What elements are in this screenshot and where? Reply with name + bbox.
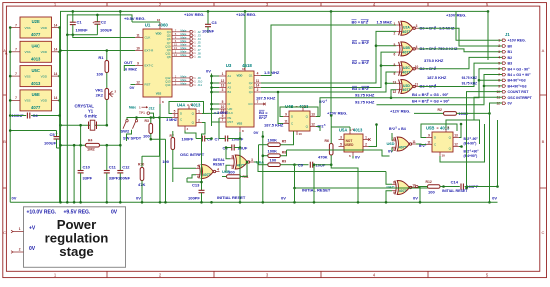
pin 4 output of U6B [216,171,220,173]
svg-text:11: 11 [415,83,419,87]
svg-text:OSC INTRRPT: OSC INTRRPT [508,96,533,100]
wire osc mid rail x67 [66,35,68,203]
pin 2 of U3 right [254,91,261,93]
pin 13 Q of U4B [310,116,316,118]
svg-text:14: 14 [54,96,58,100]
svg-text:U3: U3 [226,63,232,68]
svg-text:16: 16 [157,18,161,22]
pin 9 D of U4B [283,116,289,118]
svg-text:J9: J9 [198,55,202,59]
svg-text:11: 11 [412,140,416,144]
svg-text:6 mHz: 6 mHz [85,114,97,119]
svg-text:B4 = G3 + 90°: B4 = G3 + 90° [508,73,532,77]
pin 13 of U3 left [219,87,226,89]
junctions on bottom rail [59,201,62,204]
wire branch to R1 [106,51,108,61]
svg-text:5: 5 [498,61,500,65]
svg-text:Male: Male [181,50,187,54]
svg-text:Male: Male [181,35,187,39]
wire EXT-C out [124,66,135,72]
wire B0 output to J1 pin 2 [419,28,503,46]
wire B4 to U2D lower input [391,90,396,98]
pin 6 R of U5A [352,152,354,156]
unused gate unit U4C 4013 [20,41,52,62]
svg-text:VSS: VSS [25,50,31,54]
svg-text:4077: 4077 [403,70,411,74]
wire x165 vertical [165,139,167,202]
svg-text:100PF: 100PF [182,137,194,142]
pin 1 of U3 left [219,75,226,77]
svg-text:187.5 KHZ: 187.5 KHZ [256,96,276,101]
pin 8 VSS of U3 [239,127,241,132]
junction R1 column [119,10,122,13]
svg-text:VDD: VDD [41,50,48,54]
svg-text:VDD: VDD [237,74,243,78]
pin 7 of U4C [10,51,20,53]
svg-text:+: + [93,21,95,25]
wire C9 left drop [294,165,296,188]
svg-text:100: 100 [162,159,169,164]
wire +10V drop right [330,11,332,113]
svg-text:+V: +V [29,225,36,231]
svg-text:RST: RST [228,120,234,124]
svg-text:INITIAL RESET: INITIAL RESET [302,188,331,193]
svg-text:9: 9 [394,72,396,76]
wire count rst run [467,92,503,120]
svg-text:C2: C2 [101,19,107,24]
pin 12 of U6D [392,146,396,148]
svg-text:100NF: 100NF [118,176,131,181]
pin 4 S of U5A [349,131,351,135]
wire U6C output to 0V rail [416,188,420,203]
svg-text:3 MHZ: 3 MHZ [166,118,178,122]
svg-text:9: 9 [137,61,139,65]
pin 6 of U6B [196,174,200,176]
svg-text:U2E: U2E [32,19,40,24]
svg-text:R8: R8 [282,151,286,155]
svg-text:U6D: U6D [387,141,395,146]
svg-text:7: 7 [15,23,17,27]
junction crystal right [106,124,109,127]
svg-text:11: 11 [284,119,288,123]
xnor gate U2B 4077 [401,42,413,56]
svg-text:4077: 4077 [237,164,245,168]
xnor gate U6B 4077 [201,165,213,179]
pin 1 of U6A [230,158,234,160]
svg-text:U2A: U2A [403,26,410,30]
svg-text:3: 3 [251,158,253,162]
svg-text:R10: R10 [138,163,144,167]
svg-text:16: 16 [242,67,246,71]
wire U3 Q1 to U2A input [261,25,396,76]
wire B1 output to J1 pin 3 [419,49,503,52]
svg-text:A1: A1 [228,74,232,78]
pin 2 Qbar of U4A [196,122,202,124]
svg-text:0V: 0V [413,196,418,201]
svg-text:+12V REG.: +12V REG. [390,109,410,114]
svg-text:0V: 0V [281,196,286,201]
wire U5A S to +10V [349,127,351,131]
svg-text:10: 10 [409,185,413,189]
svg-text:15: 15 [174,43,177,47]
wire TP1 to node [150,113,154,117]
svg-text:Male: Male [181,28,187,32]
frame column ticks and numbers [107,3,428,278]
wire C14 right up [497,120,499,187]
svg-text:R5: R5 [282,140,286,144]
svg-text:3: 3 [416,24,418,28]
svg-text:Q2: Q2 [249,81,253,85]
wire osc intrrpt run [474,97,502,120]
junction +10V drop mid [244,10,247,13]
svg-text:4: 4 [416,45,418,49]
svg-text:(B4-90°): (B4-90°) [464,141,477,145]
wire SW2 poles up [126,118,128,120]
svg-text:0V: 0V [29,246,36,252]
wire +10V drop to U3 [244,11,246,68]
svg-text:Male: Male [181,74,187,78]
svg-text:R6: R6 [325,139,329,143]
xnor gate U2C 4077 [401,62,413,76]
svg-text:12: 12 [311,122,315,126]
svg-text:VSS: VSS [25,99,31,103]
pin 2 of U6A [230,164,234,166]
svg-text:5: 5 [340,142,342,146]
svg-text:12: 12 [393,90,397,94]
svg-text:100: 100 [143,133,150,138]
wire U6D output to U5B clock [416,143,426,146]
pin 3 of U3 left [219,91,226,93]
wire +9.5V second rail [67,15,132,35]
svg-text:B4-90°=G3: B4-90°=G3 [508,79,526,83]
svg-text:9: 9 [428,133,430,137]
pin 8 S of U5B [445,129,447,133]
svg-text:7: 7 [15,48,17,52]
svg-text:93.75 KHZ: 93.75 KHZ [462,76,477,80]
pin 11 CLK of U5B [426,144,432,146]
svg-text:14: 14 [54,48,58,52]
xnor gate U6C 4077 [397,181,409,195]
pin 10 EXT-R of U1 [135,50,143,52]
svg-text:1M2: 1M2 [87,147,96,152]
svg-text:Male: Male [181,78,187,82]
svg-text:B0: B0 [508,44,513,48]
wire U5B D loop [421,124,457,138]
svg-text:U2B: U2B [403,46,410,50]
svg-text:VSS: VSS [237,122,243,126]
svg-text:COUNT RST: COUNT RST [508,90,530,94]
pins of U2C [396,65,401,67]
svg-text:U4C: U4C [32,44,40,49]
wire C1 C2 bottom join [67,34,97,36]
svg-text:100K: 100K [268,138,278,143]
wire EXT-R from oscillator rail [61,50,136,52]
svg-text:U2C: U2C [403,66,410,70]
pin 8 S of U4B [302,108,304,112]
svg-text:U5A: U5A [339,128,347,133]
svg-text:R4: R4 [88,139,92,143]
xnor gate U2D 4077 [401,80,413,94]
svg-text:Male: Male [181,81,187,85]
svg-text:0V: 0V [12,196,17,201]
svg-text:0V: 0V [130,85,135,90]
svg-text:13: 13 [221,84,225,88]
svg-text:3: 3 [174,113,176,117]
svg-text:C3: C3 [212,20,218,25]
pin 9 EXT-C of U1 [135,65,143,67]
pin 14 of U4C [52,51,60,53]
pin 10 R of U5B [439,152,441,156]
svg-text:4077: 4077 [399,189,407,193]
pin 11 CLK of U4B [283,123,289,125]
pin 5 of U6B [196,167,200,169]
junction +10V right column [330,10,333,13]
wire U4B Qbar out [316,127,320,132]
svg-text:3: 3 [222,88,224,92]
junction crystal left [59,124,62,127]
svg-text:= G3 + 90°: = G3 + 90° [430,99,450,104]
svg-text:VDD: VDD [41,26,48,30]
capacitor C3 100NF [207,11,209,24]
pin 5 D of U4A [172,113,178,115]
svg-text:100UF: 100UF [100,28,113,33]
svg-text:11: 11 [256,79,260,83]
svg-text:C: C [3,230,6,235]
svg-text:SW2: SW2 [121,129,130,134]
svg-text:375.0 KHZ: 375.0 KHZ [424,58,444,63]
svg-text:2: 2 [19,247,21,251]
wire mid run y156 [287,150,390,156]
wire run from U6A to U6C [258,162,386,172]
svg-text:12: 12 [136,80,140,84]
pin 7 of U5C [10,75,20,77]
svg-text:13: 13 [392,137,396,141]
xnor gate U6D 4077 [397,137,409,151]
svg-text:14: 14 [54,72,58,76]
capacitor C2 100UF polarized [96,21,98,23]
svg-text:RST: RST [145,83,151,87]
svg-text:33PF: 33PF [83,176,93,181]
svg-text:VDD: VDD [156,32,162,36]
wire U6A input 2 [226,165,230,171]
svg-text:7: 7 [15,96,17,100]
pins of U2A [396,24,401,26]
svg-text:Male: Male [181,43,187,47]
svg-text:1: 1 [222,72,224,76]
svg-text:INITIAL RESET: INITIAL RESET [217,195,246,200]
pin 4 of U3 right [254,75,261,77]
pin 4 R of U4A [184,126,186,131]
capacitor C10 33PF [80,125,82,170]
pin 14 of U3 right [254,87,261,89]
svg-text:VSS: VSS [156,92,162,96]
svg-text:4077: 4077 [403,88,411,92]
unused gate unit U2E 4077 [20,17,52,38]
svg-text:6 MHZ: 6 MHZ [125,67,138,72]
svg-text:CI: CI [228,102,231,106]
unused gate unit U6E 4077 [20,90,52,111]
pin 7 of U6E [10,99,20,101]
wire U5B Q out [459,124,461,138]
svg-text:2: 2 [257,88,259,92]
wire U5A R to 0V [352,156,354,159]
pins of U2D [396,82,401,84]
svg-text:470K: 470K [318,155,328,160]
wire 93.75 lower run [377,103,485,106]
svg-text:R9: R9 [282,160,286,164]
svg-text:C13: C13 [192,183,200,188]
wire U6A input 1 [226,148,230,159]
svg-text:Male: Male [181,39,187,43]
svg-text:0V: 0V [355,155,360,160]
pin 10 output of U6C [412,187,416,189]
svg-text:10: 10 [136,46,140,50]
svg-text:+10V REG.: +10V REG. [236,12,256,17]
wire initial reset run [295,187,437,189]
svg-text:U1: U1 [145,23,151,28]
svg-text:14: 14 [54,23,58,27]
svg-text:U2D: U2D [403,84,410,88]
wire B2 output to J1 pin 4 [419,57,503,68]
svg-text:A3: A3 [228,86,232,90]
svg-text:4077: 4077 [31,105,41,110]
pin 6 S of U4A [188,106,190,110]
wire B3 output to J1 pin 5 [419,63,503,86]
svg-text:B2: B2 [508,56,513,60]
unused gate unit U5C 4013 [20,66,52,87]
pin 7 of U3 left [219,121,226,123]
svg-text:1: 1 [198,109,200,113]
wire U6C inputs [386,172,392,185]
svg-text:VSS: VSS [25,74,31,78]
svg-text:0V: 0V [111,210,118,216]
wire C12 column drop from +10V rail [119,11,121,170]
junction C2 top [96,15,98,22]
svg-text:C11: C11 [109,165,117,170]
svg-text:stage: stage [59,244,93,259]
svg-text:+10V REG.: +10V REG. [184,12,204,17]
svg-text:11: 11 [136,33,140,37]
wire 93.75 upper run [316,116,320,118]
svg-text:U5B: U5B [426,126,434,131]
svg-text:11: 11 [427,140,431,144]
svg-text:0V: 0V [492,196,497,201]
wire C5 top to 0V rail [10,130,56,132]
svg-text:2: 2 [365,142,367,146]
svg-text:9: 9 [498,84,500,88]
wire +10V to J1 pin 1 [456,11,502,40]
wire U3 RST [212,121,220,123]
svg-text:9: 9 [285,112,287,116]
svg-text:100NF: 100NF [202,29,215,34]
svg-text:J11: J11 [198,83,203,87]
svg-text:93.75 KHZ: 93.75 KHZ [462,82,477,86]
capacitor C9 10UF [295,164,309,166]
wire U4A Q to U3 CLK [202,112,219,114]
pin 10 of U3 left [219,108,226,110]
svg-text:100PF: 100PF [188,196,200,201]
svg-text:4077: 4077 [31,32,41,37]
pin 1 Q of U4A [196,113,202,115]
pin 16 VDD of U1 [159,22,161,29]
svg-text:13: 13 [174,46,177,50]
svg-text:B: B [3,139,6,144]
svg-text:Male: Male [181,32,187,36]
svg-text:CLK: CLK [145,36,151,40]
wire U6B lower input [187,175,196,178]
svg-text:6: 6 [498,67,500,71]
wires U3 left pins to 0V rail [212,75,220,77]
svg-text:C9: C9 [298,163,304,168]
wire VDD right rail of unused gates [59,28,61,203]
svg-text:100K: 100K [268,149,278,154]
svg-text:8: 8 [498,79,500,83]
svg-text:93.75 KHZ: 93.75 KHZ [355,93,375,98]
svg-text:100: 100 [96,72,103,77]
svg-text:4013: 4013 [31,57,41,62]
pin 14 of U2E [52,27,60,29]
svg-text:CLK: CLK [228,111,234,115]
svg-text:4: 4 [217,167,219,171]
svg-text:R3: R3 [145,119,149,123]
svg-text:12: 12 [454,142,458,146]
svg-text:9: 9 [393,191,395,195]
svg-text:B1: B1 [508,50,513,54]
svg-text:187.5 KHZ: 187.5 KHZ [427,75,447,80]
svg-text:4077: 4077 [399,146,407,150]
wire U6D upper input [391,133,393,141]
svg-text:4: 4 [498,56,500,60]
svg-text:Male: Male [181,53,187,57]
svg-text:= B4: = B4 [398,127,406,131]
wire 0V rail at U3 [211,74,213,127]
pin 7 of U3 right [254,103,261,105]
pin 8 of U6C [392,183,396,185]
svg-text:7: 7 [498,73,500,77]
svg-text:C10: C10 [83,165,91,170]
svg-text:10: 10 [299,132,303,136]
svg-text:B4+90°=G3: B4+90°=G3 [508,84,527,88]
wire U6D lower input to 0V [391,147,393,152]
svg-text:= G3 - 90°: = G3 - 90° [430,92,449,97]
svg-text:0V: 0V [508,102,513,106]
pin 5 of U5A [339,146,345,148]
svg-text:J1: J1 [505,32,510,37]
pin 12 of U3 left [219,82,226,84]
pin 16 VDD of U3 [244,68,246,71]
svg-text:6: 6 [394,52,396,56]
wire right bus 1 [466,120,468,188]
wire SW2 common down [127,130,132,141]
svg-text:VSS: VSS [25,26,31,30]
svg-text:RESET: RESET [213,163,225,167]
svg-text:14: 14 [256,84,260,88]
svg-text:10: 10 [442,154,446,158]
resistor R2 100K [414,112,444,114]
svg-text:4077: 4077 [403,30,411,34]
svg-text:100NF: 100NF [76,28,89,33]
svg-text:Male: Male [129,105,136,109]
svg-text:=: = [437,127,439,131]
pin 15 of U3 left [219,112,226,114]
wire osc left rail [60,32,62,202]
svg-text:Q4: Q4 [249,90,253,94]
pin 10 R of U4B [296,131,298,135]
svg-text:B3: B3 [508,62,513,66]
wire B4+90 run to J1 pin 7 and pin 9 [484,75,502,105]
svg-text:100: 100 [428,190,435,195]
wire 0V left rail [9,28,11,203]
